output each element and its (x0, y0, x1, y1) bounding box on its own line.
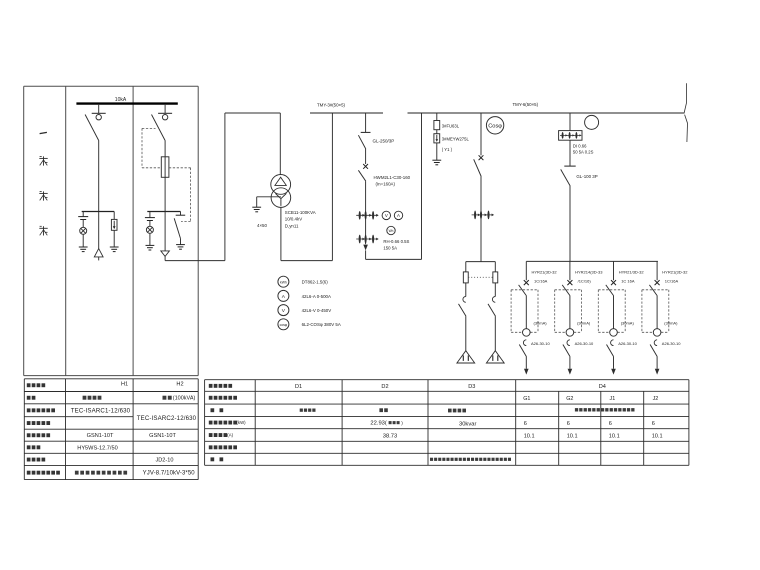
linkage dashes H2 (fuse trip linkage) (142, 128, 191, 221)
ground (H1 arrester) (110, 247, 119, 252)
label A26-30-10 (G2 feeder) (575, 341, 594, 346)
residual current detector 30mA (J1 feeder) (610, 329, 618, 337)
ground (H2 lamp branch) (146, 245, 155, 250)
row current A (383, 433, 663, 439)
ground (H2 earthing switch) (176, 245, 185, 250)
svg-text:J2: J2 (653, 396, 659, 402)
table: LV distribution schedule (205, 380, 689, 466)
cell H2 values (137, 382, 197, 477)
arrow (to LV main) (363, 245, 368, 251)
svg-text:cosφ: cosφ (280, 323, 288, 327)
svg-text:A: A (397, 213, 400, 218)
label 3#FU63L (442, 124, 460, 129)
surge arrester H1 (HY5WS) (111, 212, 117, 248)
svg-text:DI 0.66: DI 0.66 (573, 143, 587, 148)
fuse H2 (HV fuse) (161, 157, 169, 178)
dashed enclosure (J1 feeder) (598, 290, 625, 333)
label 4x50 (ground conductor) (257, 223, 267, 228)
svg-text:HY5WS-12.7/50: HY5WS-12.7/50 (77, 445, 117, 451)
arrow outgoing (G2 feeder) (568, 369, 573, 375)
label HYR21/3D-32 (J1 feeder) (619, 270, 645, 284)
charged display device H2 (capacitor + lamp) (145, 212, 155, 246)
svg-text:TMY-3#(50×5): TMY-3#(50×5) (317, 103, 346, 108)
CT row (D3 branch) (472, 211, 495, 220)
svg-text:6L2-COSφ 380V 5A: 6L2-COSφ 380V 5A (302, 322, 341, 327)
bus TMY-6 LV distribution busbar (408, 112, 685, 114)
svg-text:150 5A: 150 5A (383, 245, 397, 250)
breaker H2 (drawout vacuum breaker) (152, 105, 173, 212)
svg-text:( Y1 ): ( Y1 ) (442, 147, 453, 152)
fuse 3#FU63L (434, 113, 440, 134)
svg-text:A26-30-10: A26-30-10 (662, 341, 681, 346)
label CT spec RH-0.66 (383, 239, 409, 250)
label A26-30-10 (J1 feeder) (618, 341, 637, 346)
arrow outgoing (J1 feeder) (611, 369, 616, 375)
breaker HWM2L1-C30-160 (358, 164, 368, 244)
svg-text:TEC-ISARC1-12/630: TEC-ISARC1-12/630 (71, 407, 131, 414)
wire feeder drop (G2 feeder) (569, 261, 571, 280)
svg-text:H1: H1 (121, 382, 128, 388)
label 30mA (J2 feeder) (664, 320, 678, 325)
wire transformer-to-LV-bus (281, 113, 333, 261)
bus break mark (684, 83, 687, 142)
svg-text:10.1: 10.1 (524, 433, 535, 439)
contactor A26-30-10 (J2 feeder) (650, 340, 657, 369)
breaker RCBO (J2 feeder) (649, 280, 659, 329)
label DT862-1.5(6) (302, 280, 329, 285)
svg-text:GL-100 3P: GL-100 3P (576, 174, 597, 179)
breaker D3 (capacitor feed) (474, 113, 484, 262)
svg-text:6: 6 (652, 421, 655, 427)
contactor A26-30-10 (G1 feeder) (519, 340, 526, 369)
row circuit numbers G1 G2 J1 J2 (523, 396, 658, 402)
svg-text:SCB11-100KVA: SCB11-100KVA (285, 210, 316, 215)
svg-text:GSN1-10T: GSN1-10T (149, 433, 176, 439)
svg-text:6: 6 (609, 421, 612, 427)
svg-text:10.1: 10.1 (609, 433, 620, 439)
label transformer spec (285, 210, 316, 229)
svg-text:50 5A 0.2S: 50 5A 0.2S (573, 150, 594, 155)
residual current detector 30mA (G1 feeder) (523, 329, 531, 337)
svg-text:3#MEYW275L: 3#MEYW275L (442, 136, 470, 141)
label 3#MEYW275L (442, 136, 470, 152)
svg-text:G2: G2 (566, 396, 573, 402)
contactor A26-30-10 (J1 feeder) (607, 340, 614, 369)
svg-text:(A): (A) (227, 433, 233, 438)
svg-text:1C/16A: 1C/16A (534, 278, 548, 283)
label 30mA (J1 feeder) (621, 320, 635, 325)
svg-text:(30mA): (30mA) (577, 320, 591, 325)
svg-text:HYR21(3D-32: HYR21(3D-32 (662, 270, 688, 275)
power factor meter Cos (486, 117, 503, 134)
svg-text:10kA: 10kA (115, 97, 127, 103)
svg-text:(30mA): (30mA) (621, 320, 635, 325)
svg-text:1C 16A: 1C 16A (621, 278, 635, 283)
kWh meter circle (585, 115, 599, 129)
legend meter kWh (278, 276, 289, 287)
svg-text:/1C/16): /1C/16) (578, 278, 592, 283)
svg-text:A26-30-10: A26-30-10 (531, 341, 550, 346)
cable terminal H2 (outgoing, triangle down) (161, 212, 170, 261)
svg-text:GL-250/3P: GL-250/3P (373, 139, 395, 144)
ground (arrester branch) (432, 160, 441, 165)
svg-text:JD2-10: JD2-10 (155, 458, 173, 464)
label 30mA (G1 feeder) (534, 320, 548, 325)
svg-text:6: 6 (567, 421, 570, 427)
label GL-250/3P (373, 139, 395, 144)
label TMY-3#(50x5) (317, 103, 346, 108)
LV surge arrester 3#MEYW275L (434, 134, 440, 161)
label A26-30-10 (G1 feeder) (531, 341, 550, 346)
frame: primary-wiring column and cells H1 H2 (24, 86, 199, 375)
svg-text:22.93(: 22.93( (370, 421, 387, 427)
label 6L2-COS (302, 322, 341, 327)
svg-text:): ) (401, 421, 403, 426)
svg-text:RH-0.66 0.5S: RH-0.66 0.5S (383, 239, 409, 244)
svg-text:GSN1-10T: GSN1-10T (87, 433, 114, 439)
linkage dotted between fuses (468, 276, 493, 278)
svg-text:G1: G1 (523, 396, 530, 402)
table labels right column (209, 384, 246, 461)
wire feeder drop (J1 feeder) (613, 261, 615, 280)
energy meter Wh (387, 226, 395, 234)
feeder bus (lighting distribution) (526, 260, 658, 262)
bus TMY-3 LV busbar (310, 112, 383, 114)
voltmeter V (382, 211, 390, 219)
wire feeder drop (G1 feeder) (525, 261, 527, 280)
dashed enclosure (G2 feeder) (555, 290, 582, 333)
cable terminal H1 (incoming, triangle up) (94, 212, 103, 261)
fuse + contactor + capacitor bank C1 (457, 272, 475, 363)
svg-text:D3: D3 (468, 384, 475, 390)
svg-text:D,yn11: D,yn11 (285, 223, 299, 228)
label HYR21(3D-32 (G1 feeder) (532, 270, 558, 284)
node split D3 two capacitor groups (466, 262, 496, 272)
PT/indicator bar H2 (147, 211, 180, 213)
label A26-30-10 (J2 feeder) (662, 341, 681, 346)
svg-text:J1: J1 (610, 396, 616, 402)
CT row (metering V/A) (356, 211, 379, 220)
row capacity kW (370, 421, 654, 428)
residual current detector 30mA (G2 feeder) (566, 329, 574, 337)
svg-text:V: V (385, 213, 388, 218)
svg-text:TMY-6(50×5): TMY-6(50×5) (513, 102, 539, 107)
svg-text:4×50: 4×50 (257, 223, 267, 228)
ammeter A (394, 211, 402, 219)
arrow outgoing (G1 feeder) (524, 369, 529, 375)
earthing switch H2 (JD2-10) (174, 212, 185, 245)
svg-text:(30mA): (30mA) (534, 320, 548, 325)
svg-text:D2: D2 (381, 384, 388, 390)
svg-text:V: V (282, 308, 286, 314)
svg-text:DT862-1.5(6): DT862-1.5(6) (302, 280, 329, 285)
transformer neutral ground tap (252, 197, 281, 212)
svg-text:H2: H2 (176, 382, 183, 388)
svg-text:HYR21/3D-32: HYR21/3D-32 (619, 270, 645, 275)
ground (H1 lamp branch) (79, 247, 88, 252)
svg-text:42L6-V 0-450V: 42L6-V 0-450V (302, 308, 332, 313)
bus 10kV (HV busbar) (76, 102, 177, 104)
svg-text:A26-30-10: A26-30-10 (618, 341, 637, 346)
label CT spec DI 0.66 (573, 143, 594, 154)
wire feeder drop (J2 feeder) (656, 261, 658, 280)
legend meter cos-phi (278, 319, 289, 330)
label TMY-6(50x5) (513, 102, 539, 107)
svg-text:kWh: kWh (280, 280, 287, 284)
disconnect switch GL-250/3P (358, 113, 370, 164)
fuse + contactor + capacitor bank C2 (486, 272, 504, 363)
svg-text:6: 6 (524, 421, 527, 427)
svg-text:HWM2L1-C30-160: HWM2L1-C30-160 (374, 175, 411, 180)
legend meter V (278, 305, 289, 316)
dashed enclosure (G1 feeder) (511, 290, 538, 333)
metering CT box (LMZ) (559, 113, 582, 140)
svg-text:YJV-8.7/10kV-3*50: YJV-8.7/10kV-3*50 (143, 471, 196, 477)
svg-text:42L6-A 0-500A: 42L6-A 0-500A (302, 294, 331, 299)
label HYR21(3D-32 (J2 feeder) (662, 270, 688, 284)
dashed enclosure (J2 feeder) (642, 290, 669, 333)
label 30mA (G2 feeder) (577, 320, 591, 325)
svg-text:(100kVA): (100kVA) (173, 396, 196, 402)
switch GL-100 3P (561, 140, 576, 261)
svg-text:D4: D4 (599, 384, 606, 390)
contactor A26-30-10 (G2 feeder) (563, 340, 570, 369)
breaker RCBO (G1 feeder) (519, 280, 529, 329)
arrow outgoing (J2 feeder) (655, 369, 660, 375)
row remark (430, 458, 511, 461)
wire H2-to-transformer (up and over) (165, 113, 280, 261)
svg-text:38.73: 38.73 (383, 433, 398, 439)
svg-text:(kW): (kW) (237, 420, 247, 425)
svg-text:10.1: 10.1 (567, 433, 578, 439)
row usage (300, 408, 635, 412)
table: HV unit schedule (24, 379, 198, 480)
breaker H1 (drawout vacuum breaker) (85, 105, 106, 212)
row panel numbers D1-D4 (295, 384, 606, 390)
PT/indicator bar H1 (82, 211, 115, 213)
breaker RCBO (J1 feeder) (606, 280, 616, 329)
cell H1 values (71, 382, 131, 475)
charged display device H1 (capacitor + lamp) (78, 212, 88, 248)
residual current detector 30mA (J2 feeder) (653, 329, 661, 337)
label 42L6-V (302, 308, 332, 313)
svg-text:(In=160A): (In=160A) (376, 182, 396, 187)
svg-text:HYR21(3D-32: HYR21(3D-32 (532, 270, 558, 275)
svg-text:D1: D1 (295, 384, 302, 390)
wire incoming loop to TMY-6 bus (366, 113, 422, 259)
svg-text:A: A (282, 294, 286, 300)
svg-text:A26-30-10: A26-30-10 (575, 341, 594, 346)
svg-text:(30mA): (30mA) (664, 320, 678, 325)
title text yi-ci-jie-xian (vertical) (39, 132, 47, 235)
transformer T1 SCB11-100kVA (271, 175, 291, 208)
label 42L6-A (302, 294, 331, 299)
CT row 2 (energy metering) (356, 235, 379, 244)
label HYR214(3D-33 (G2 feeder) (575, 270, 603, 284)
svg-text:HYR214(3D-33: HYR214(3D-33 (575, 270, 603, 275)
svg-text:1C/16A: 1C/16A (665, 278, 679, 283)
svg-text:10/0.4kV: 10/0.4kV (285, 217, 302, 222)
svg-text:Cosφ: Cosφ (488, 124, 502, 130)
svg-text:TEC-ISARC2-12/630: TEC-ISARC2-12/630 (137, 415, 197, 422)
breaker RCBO (G2 feeder) (562, 280, 572, 329)
svg-text:30kvar: 30kvar (459, 422, 476, 428)
table labels left column (27, 383, 60, 474)
label GL-100 3P (576, 174, 597, 179)
label 10kV (115, 97, 127, 103)
legend meter A (278, 290, 289, 301)
svg-text:3#FU63L: 3#FU63L (442, 124, 460, 129)
label HWM2L1 (374, 175, 411, 187)
svg-text:Wh: Wh (389, 229, 394, 233)
svg-text:10.1: 10.1 (652, 433, 663, 439)
